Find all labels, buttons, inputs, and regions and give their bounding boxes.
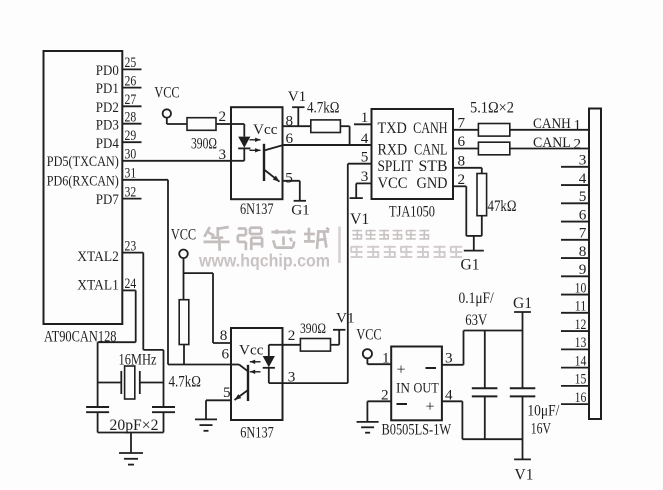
- svg-text:6N137: 6N137: [240, 425, 274, 442]
- svg-text:6: 6: [222, 346, 230, 363]
- svg-text:CANH: CANH: [533, 115, 571, 132]
- svg-text:PD5(TXCAN): PD5(TXCAN): [47, 153, 119, 170]
- svg-text:V1: V1: [336, 310, 355, 327]
- svg-text:6N137: 6N137: [240, 201, 274, 218]
- svg-text:CANH: CANH: [413, 120, 447, 137]
- svg-text:63V: 63V: [465, 312, 488, 329]
- svg-text:V1: V1: [515, 467, 534, 484]
- svg-text:PD4: PD4: [96, 135, 119, 152]
- svg-text:V1: V1: [350, 211, 369, 228]
- svg-text:4.7kΩ: 4.7kΩ: [307, 100, 340, 117]
- svg-text:PD3: PD3: [96, 116, 119, 133]
- svg-text:1: 1: [361, 109, 369, 126]
- svg-text:390Ω: 390Ω: [300, 320, 326, 337]
- svg-text:7: 7: [458, 114, 466, 131]
- svg-text:16: 16: [575, 389, 587, 406]
- svg-text:2: 2: [574, 135, 582, 152]
- svg-text:13: 13: [575, 334, 587, 351]
- svg-text:www.hqchip.com: www.hqchip.com: [198, 251, 330, 271]
- svg-text:47kΩ: 47kΩ: [488, 198, 517, 215]
- svg-text:23: 23: [125, 237, 137, 254]
- svg-text:PD1: PD1: [96, 80, 119, 97]
- svg-text:RXD: RXD: [378, 142, 408, 159]
- svg-text:8: 8: [220, 327, 228, 344]
- svg-text:14: 14: [575, 352, 587, 369]
- svg-text:32: 32: [125, 183, 137, 200]
- svg-text:24: 24: [125, 275, 137, 292]
- svg-text:4: 4: [579, 170, 587, 187]
- svg-text:STB: STB: [419, 158, 448, 175]
- svg-text:G1: G1: [513, 295, 532, 312]
- svg-text:4.7kΩ: 4.7kΩ: [169, 374, 202, 391]
- svg-text:PD2: PD2: [96, 99, 119, 116]
- svg-text:CANL: CANL: [533, 134, 571, 151]
- svg-text:PD0: PD0: [96, 62, 119, 79]
- svg-text:20pF×2: 20pF×2: [110, 417, 159, 434]
- svg-text:TJA1050: TJA1050: [389, 204, 435, 221]
- svg-text:0.1μF/: 0.1μF/: [459, 290, 495, 307]
- svg-text:6: 6: [458, 133, 466, 150]
- svg-text:3: 3: [361, 168, 369, 185]
- svg-text:VCC: VCC: [171, 227, 196, 244]
- svg-text:11: 11: [575, 298, 587, 315]
- svg-text:V1: V1: [288, 88, 307, 105]
- svg-text:GND: GND: [417, 175, 448, 192]
- svg-text:+: +: [397, 362, 406, 379]
- svg-text:26: 26: [125, 72, 137, 89]
- svg-text:8: 8: [458, 153, 466, 170]
- svg-text:VCC: VCC: [154, 85, 179, 102]
- svg-text:Vcc: Vcc: [253, 121, 278, 138]
- svg-text:B0505LS-1W: B0505LS-1W: [382, 422, 452, 439]
- svg-text:5.1Ω×2: 5.1Ω×2: [470, 100, 514, 117]
- svg-text:5: 5: [579, 188, 587, 205]
- svg-text:XTAL2: XTAL2: [77, 248, 119, 265]
- svg-text:OUT: OUT: [414, 380, 440, 397]
- svg-text:15: 15: [575, 371, 587, 388]
- svg-text:G1: G1: [461, 257, 480, 274]
- svg-text:1: 1: [574, 117, 582, 134]
- svg-text:5: 5: [285, 170, 293, 187]
- svg-text:2: 2: [219, 108, 227, 125]
- svg-text:10: 10: [575, 279, 587, 296]
- svg-text:2: 2: [458, 171, 466, 188]
- svg-text:VCC: VCC: [356, 327, 381, 344]
- svg-text:Vcc: Vcc: [239, 342, 264, 359]
- svg-text:2: 2: [288, 327, 296, 344]
- svg-text:29: 29: [125, 127, 137, 144]
- svg-text:27: 27: [125, 91, 137, 108]
- svg-text:VCC: VCC: [378, 175, 408, 192]
- svg-text:6: 6: [579, 206, 587, 223]
- svg-text:9: 9: [579, 261, 587, 278]
- svg-text:28: 28: [125, 109, 137, 126]
- svg-text:TXD: TXD: [378, 120, 407, 137]
- svg-text:8: 8: [579, 243, 587, 260]
- svg-text:16V: 16V: [531, 421, 552, 438]
- svg-text:5: 5: [361, 149, 369, 166]
- svg-text:25: 25: [125, 54, 137, 71]
- svg-text:3: 3: [219, 146, 227, 163]
- svg-text:3: 3: [579, 152, 587, 169]
- svg-text:+: +: [426, 399, 435, 416]
- svg-text:10μF/: 10μF/: [527, 403, 560, 420]
- svg-text:SPLIT: SPLIT: [378, 158, 414, 175]
- svg-text:PD6(RXCAN): PD6(RXCAN): [47, 172, 119, 189]
- svg-text:G1: G1: [291, 202, 310, 219]
- svg-text:4: 4: [361, 130, 369, 147]
- svg-text:30: 30: [125, 145, 137, 162]
- svg-text:CANL: CANL: [414, 142, 448, 159]
- svg-text:5: 5: [223, 384, 231, 401]
- svg-text:IN: IN: [396, 380, 410, 397]
- svg-text:7: 7: [579, 225, 587, 242]
- svg-text:1: 1: [382, 350, 390, 367]
- svg-text:PD7: PD7: [96, 191, 119, 208]
- svg-text:XTAL1: XTAL1: [77, 276, 119, 293]
- svg-text:390Ω: 390Ω: [191, 136, 217, 153]
- svg-text:12: 12: [575, 316, 587, 333]
